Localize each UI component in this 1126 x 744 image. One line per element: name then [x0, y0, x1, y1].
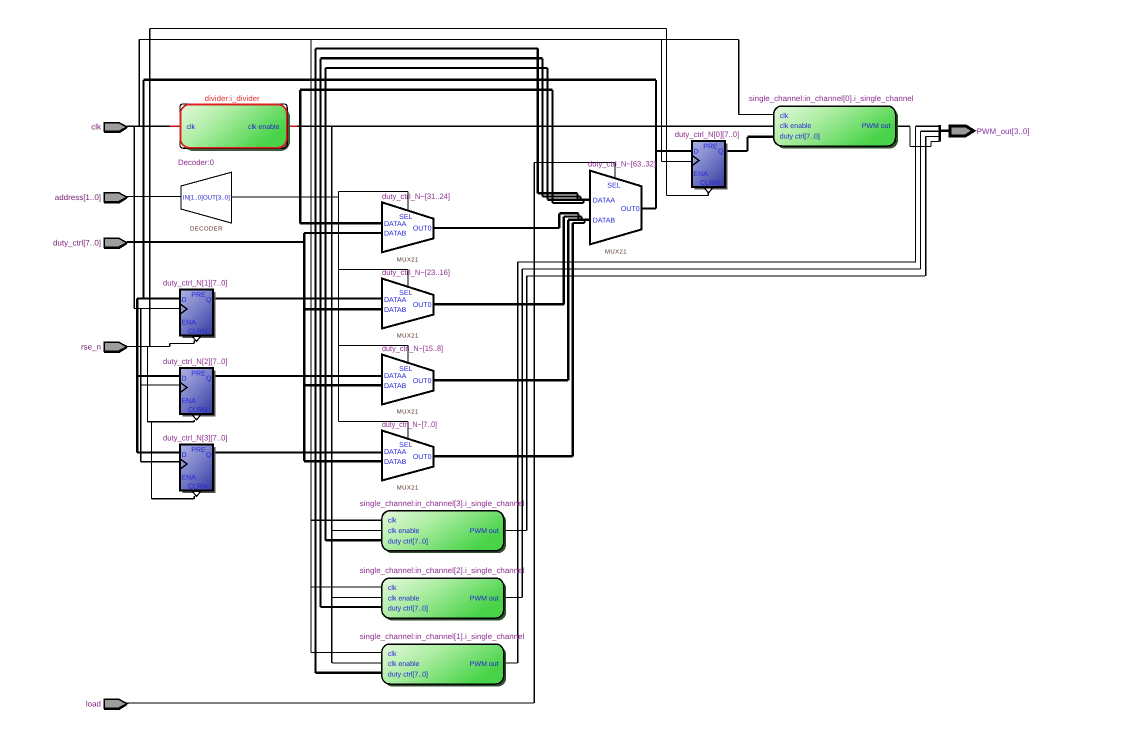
svg-text:ENA: ENA	[182, 475, 197, 482]
svg-text:D: D	[694, 148, 699, 155]
svg-text:MUX21: MUX21	[397, 409, 419, 416]
svg-text:PWM out: PWM out	[470, 595, 499, 602]
svg-text:duty ctrl[7..0]: duty ctrl[7..0]	[388, 537, 428, 545]
svg-text:DATAA: DATAA	[384, 297, 407, 304]
svg-text:IN[1..0]OUT[3..0]: IN[1..0]OUT[3..0]	[183, 195, 230, 202]
svg-text:clk: clk	[388, 584, 397, 592]
svg-text:SEL: SEL	[399, 442, 412, 449]
svg-text:PWM_out[3..0]: PWM_out[3..0]	[977, 127, 1030, 136]
svg-text:duty_ctrl_N~[7..0]: duty_ctrl_N~[7..0]	[382, 420, 437, 429]
svg-text:Decoder:0: Decoder:0	[178, 158, 215, 167]
svg-text:Q: Q	[206, 297, 212, 304]
svg-text:address[1..0]: address[1..0]	[55, 193, 101, 202]
svg-text:MUX21: MUX21	[397, 256, 419, 263]
svg-text:OUT0: OUT0	[413, 378, 432, 385]
svg-text:clk enable: clk enable	[388, 660, 420, 668]
svg-text:duty_ctrl_N[1][7..0]: duty_ctrl_N[1][7..0]	[163, 279, 228, 288]
svg-text:clk: clk	[388, 517, 397, 525]
svg-text:single_channel:in_channel[3].i: single_channel:in_channel[3].i_single_ch…	[360, 499, 525, 508]
svg-text:MUX21: MUX21	[605, 249, 627, 256]
svg-text:duty_ctrl_N~[15..8]: duty_ctrl_N~[15..8]	[382, 344, 443, 353]
svg-text:duty ctrl[7..0]: duty ctrl[7..0]	[780, 133, 820, 141]
svg-text:PWM out: PWM out	[862, 123, 891, 130]
svg-text:duty_ctrl_N[3][7..0]: duty_ctrl_N[3][7..0]	[163, 434, 228, 443]
svg-text:Q: Q	[718, 148, 724, 155]
svg-text:CLRN: CLRN	[700, 180, 719, 187]
svg-text:duty ctrl[7..0]: duty ctrl[7..0]	[388, 671, 428, 679]
svg-text:CLRN: CLRN	[188, 484, 207, 491]
svg-text:OUT0: OUT0	[413, 226, 432, 233]
svg-text:SEL: SEL	[399, 290, 412, 297]
svg-text:load: load	[86, 699, 101, 708]
svg-text:clk enable: clk enable	[780, 122, 812, 130]
svg-text:SEL: SEL	[607, 183, 620, 190]
svg-text:D: D	[182, 297, 187, 304]
svg-text:duty_ctrl_N~[31..24]: duty_ctrl_N~[31..24]	[382, 192, 450, 201]
svg-text:DATAA: DATAA	[384, 221, 407, 228]
svg-text:CLRN: CLRN	[188, 329, 207, 336]
svg-text:DATAA: DATAA	[384, 373, 407, 380]
svg-text:clk: clk	[187, 123, 196, 131]
svg-text:rse_n: rse_n	[81, 342, 101, 351]
svg-text:PRE: PRE	[191, 371, 206, 378]
svg-text:DECODER: DECODER	[190, 226, 223, 233]
svg-text:OUT0: OUT0	[621, 206, 640, 213]
svg-text:DATAA: DATAA	[593, 198, 616, 205]
svg-text:SEL: SEL	[399, 214, 412, 221]
svg-text:MUX21: MUX21	[397, 333, 419, 340]
svg-text:ENA: ENA	[182, 398, 197, 405]
svg-text:OUT0: OUT0	[413, 454, 432, 461]
svg-text:PRE: PRE	[191, 447, 206, 454]
svg-text:single_channel:in_channel[2].i: single_channel:in_channel[2].i_single_ch…	[360, 566, 525, 575]
svg-text:D: D	[182, 375, 187, 382]
svg-text:duty ctrl[7..0]: duty ctrl[7..0]	[388, 605, 428, 613]
svg-text:duty_ctrl_N~[63..32]: duty_ctrl_N~[63..32]	[588, 160, 656, 169]
svg-text:clk enable: clk enable	[248, 123, 280, 131]
svg-text:Q: Q	[206, 375, 212, 382]
svg-text:duty_ctrl_N[2][7..0]: duty_ctrl_N[2][7..0]	[163, 357, 228, 366]
svg-text:ENA: ENA	[182, 320, 197, 327]
svg-text:clk enable: clk enable	[388, 527, 420, 535]
svg-text:OUT0: OUT0	[413, 302, 432, 309]
svg-text:single_channel:in_channel[1].i: single_channel:in_channel[1].i_single_ch…	[360, 632, 525, 641]
svg-text:DATAB: DATAB	[384, 231, 407, 238]
svg-text:single_channel:in_channel[0].i: single_channel:in_channel[0].i_single_ch…	[749, 94, 914, 103]
svg-text:D: D	[182, 452, 187, 459]
svg-text:ENA: ENA	[694, 171, 709, 178]
svg-text:DATAB: DATAB	[384, 307, 407, 314]
svg-text:DATAB: DATAB	[384, 459, 407, 466]
svg-text:SEL: SEL	[399, 366, 412, 373]
svg-text:DATAB: DATAB	[593, 218, 616, 225]
svg-text:DATAA: DATAA	[384, 449, 407, 456]
svg-text:DATAB: DATAB	[384, 383, 407, 390]
svg-text:PRE: PRE	[703, 144, 718, 151]
svg-text:Q: Q	[206, 452, 212, 459]
svg-text:duty_ctrl_N[0][7..0]: duty_ctrl_N[0][7..0]	[675, 130, 740, 139]
svg-text:duty_ctrl[7..0]: duty_ctrl[7..0]	[53, 238, 101, 247]
svg-text:clk: clk	[388, 650, 397, 658]
svg-text:clk: clk	[780, 112, 789, 120]
svg-text:duty_ctrl_N~[23..16]: duty_ctrl_N~[23..16]	[382, 268, 450, 277]
svg-text:divider:i_divider: divider:i_divider	[205, 94, 260, 103]
svg-text:clk enable: clk enable	[388, 594, 420, 602]
svg-text:PRE: PRE	[191, 292, 206, 299]
svg-text:PWM out: PWM out	[470, 528, 499, 535]
svg-text:MUX21: MUX21	[397, 485, 419, 492]
svg-text:CLRN: CLRN	[188, 407, 207, 414]
svg-text:clk: clk	[91, 123, 102, 132]
svg-text:PWM out: PWM out	[470, 661, 499, 668]
